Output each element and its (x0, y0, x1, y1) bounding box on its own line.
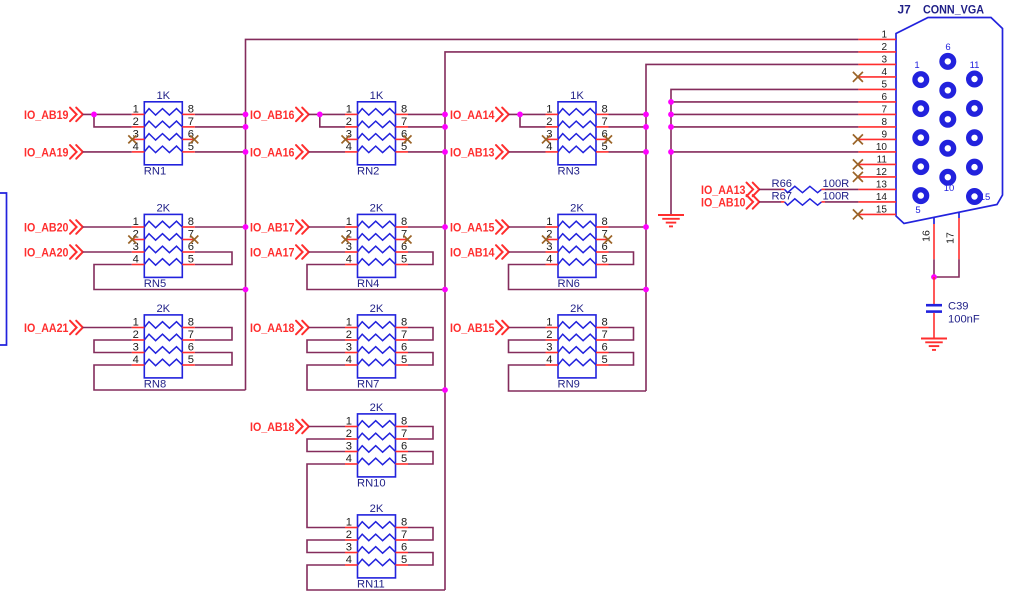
wire R67 to VGA pin 14 (825, 201, 858, 203)
svg-text:4: 4 (346, 453, 352, 465)
connector J7 pin 8 stub (858, 126, 896, 128)
no-connect X on RN6 pin 7 (604, 236, 612, 244)
svg-text:15: 15 (876, 204, 888, 215)
connector J7 pin 11 stub (858, 163, 896, 165)
port IO_AA15 (450, 220, 509, 234)
wire RN3 pin 8 to bus C (609, 113, 647, 115)
port IO_AA20 (24, 245, 83, 259)
connector J7 CONN_VGA body (896, 18, 1003, 224)
svg-text:8: 8 (188, 216, 194, 228)
svg-text:RN5: RN5 (144, 278, 166, 290)
port IO_AA21 (24, 321, 83, 335)
svg-text:IO_AB18: IO_AB18 (250, 420, 295, 434)
svg-text:10: 10 (876, 142, 888, 153)
svg-text:10: 10 (944, 183, 955, 194)
svg-text:13: 13 (876, 179, 888, 190)
wire IO_AA20 to RN pin 3 (83, 251, 132, 253)
svg-text:4: 4 (133, 354, 139, 366)
wire IO_AB13 to RN3 pin 4 (509, 151, 546, 153)
junction bus / RN.8 (group2 col2) (643, 224, 649, 230)
port IO_AA14 (450, 108, 509, 122)
svg-text:2: 2 (546, 329, 552, 341)
port IO_AB17 (250, 220, 309, 234)
no-connect X on J7 pin 9 (853, 134, 863, 144)
wire IO_AA14 to RN3 pin 1 (509, 113, 546, 115)
wire C39 bottom to ground (933, 313, 935, 339)
svg-text:6: 6 (881, 92, 887, 103)
svg-text:RN2: RN2 (357, 166, 379, 178)
svg-text:1: 1 (914, 60, 919, 71)
port IO_AB20 (24, 220, 83, 234)
svg-text:C39: C39 (948, 301, 969, 313)
svg-text:2K: 2K (570, 303, 584, 315)
wire J7 pin16 down to node (933, 259, 935, 277)
wire RN1 pin 5 to bus A (195, 151, 246, 153)
no-connect X on J7 pin 4 (853, 72, 863, 82)
wire RN1 pin 7 to bus A (195, 126, 246, 128)
wire RN pin 8 to bus (group2 col2) (609, 226, 647, 228)
svg-text:4: 4 (881, 67, 887, 78)
wire bottom loop RN pin4 to bus (group2 col1) (307, 265, 445, 290)
wire bottom loop RN pin4 to bus (group3 col1) (307, 365, 445, 390)
svg-text:IO_AA14: IO_AA14 (450, 108, 495, 122)
wire VGA pin 8 to ground bus (671, 126, 858, 128)
wire right loop RN pin8 to pin7 (group3 col0) (195, 328, 232, 341)
svg-text:3: 3 (346, 441, 352, 453)
wire left loop RN pin2 to pin3 (group3 col2) (509, 340, 546, 353)
wire IO_AB17 to RN pin 1 (309, 226, 346, 228)
pin numbers for RN5 (133, 216, 194, 266)
svg-text:4: 4 (346, 554, 352, 566)
svg-text:3: 3 (133, 342, 139, 354)
resistor network RN6 value 2K (546, 214, 609, 277)
junction bus / loop (group2 col1) (442, 287, 448, 293)
port IO_AA17 (250, 245, 309, 259)
connector J7 pin 15 stub (858, 213, 896, 215)
wire right loop RN pin6 to pin5 (group2 col0) (195, 252, 232, 265)
svg-text:RN7: RN7 (357, 379, 379, 391)
svg-text:12: 12 (876, 167, 888, 178)
resistor network RN2 value 1K (345, 102, 408, 165)
junction ground bus / VGA10 (668, 149, 674, 155)
svg-text:8: 8 (602, 216, 608, 228)
svg-text:1: 1 (346, 517, 352, 529)
junction IO_AA14 branch (517, 112, 523, 118)
svg-text:8: 8 (188, 317, 194, 329)
no-connect X on RN5 pin 2 (128, 236, 136, 244)
connector J7 socket pin 10 (942, 171, 954, 183)
connector J7 socket pin 11 (969, 73, 981, 85)
no-connect X on RN2 pin 6 (404, 135, 412, 143)
svg-text:2: 2 (346, 329, 352, 341)
wire right loop RN pin6 to pin5 (group3 col0) (195, 353, 232, 366)
svg-text:1: 1 (881, 29, 887, 40)
wire IO_AA17 to RN pin 3 (309, 251, 346, 253)
svg-text:5: 5 (401, 254, 407, 266)
connector J7 socket pin 7 (942, 84, 954, 96)
svg-text:5: 5 (188, 354, 194, 366)
wire right loop RN pin6 to pin5 (group3 col2) (609, 353, 634, 366)
ground symbol GND (below C39) (921, 339, 947, 350)
svg-text:5: 5 (401, 554, 407, 566)
svg-text:IO_AA17: IO_AA17 (250, 246, 295, 260)
svg-text:8: 8 (401, 317, 407, 329)
port IO_AB19 (24, 108, 83, 122)
svg-text:8: 8 (401, 216, 407, 228)
svg-text:6: 6 (188, 342, 194, 354)
svg-text:2K: 2K (156, 303, 170, 315)
svg-text:IO_AA21: IO_AA21 (24, 321, 69, 335)
port IO_AA16 (250, 145, 309, 159)
no-connect X on J7 pin 11 (853, 159, 863, 169)
svg-text:7: 7 (401, 329, 407, 341)
svg-text:IO_AB16: IO_AB16 (250, 108, 295, 122)
connector J7 socket pin 2 (915, 103, 927, 115)
svg-text:14: 14 (876, 192, 888, 203)
svg-text:R67: R67 (772, 190, 793, 202)
wire IO_AB14 to RN pin 3 (509, 251, 546, 253)
svg-text:RN3: RN3 (558, 166, 580, 178)
wire IO_AB15 to RN pin 1 (509, 327, 546, 329)
svg-text:1: 1 (346, 216, 352, 228)
svg-text:IO_AB19: IO_AB19 (24, 108, 69, 122)
svg-text:7: 7 (401, 529, 407, 541)
svg-text:1K: 1K (156, 90, 170, 102)
port IO_AB15 (450, 321, 509, 335)
wire right loop RN pin8 to pin7 (group3 col1) (408, 328, 433, 341)
port IO_AA18 (250, 321, 309, 335)
off-sheet symbol fragment (left edge) (0, 193, 7, 345)
no-connect X on RN4 pin 2 (342, 236, 350, 244)
pin numbers for RN11 (346, 517, 407, 567)
wire RN pin 8 to bus (group2 col0) (195, 226, 246, 228)
svg-text:7: 7 (401, 428, 407, 440)
junction bus C / RN3.8 (643, 112, 649, 118)
junction IO_AB16 branch (317, 112, 323, 118)
resistor network RN5 value 2K (132, 214, 195, 277)
junction bus B / RN2.5 (442, 149, 448, 155)
resistor network RN1 value 1K (132, 102, 195, 165)
wire IO_AA18 to RN pin 1 (309, 327, 346, 329)
no-connect X on RN6 pin 2 (542, 236, 550, 244)
no-connect X on RN1 pin 3 (128, 135, 136, 143)
port IO_AB18 (250, 420, 309, 434)
svg-text:1: 1 (346, 103, 352, 115)
svg-text:IO_AB10: IO_AB10 (701, 196, 746, 210)
wire ground bus vertical to VGA pin 5 (671, 89, 858, 215)
svg-text:IO_AB20: IO_AB20 (24, 221, 69, 235)
connector J7 pin 9 stub (858, 138, 896, 140)
svg-text:6: 6 (401, 441, 407, 453)
svg-text:100nF: 100nF (948, 314, 980, 326)
wire branch IO_AA14 to RN3 pin 2 (520, 114, 546, 127)
svg-text:RN6: RN6 (558, 278, 580, 290)
connector J7 socket pin 9 (942, 142, 954, 154)
connector J7 socket pin 12 (969, 103, 981, 115)
junction pin16/pin17 node (931, 274, 937, 280)
svg-text:7: 7 (188, 116, 194, 128)
wire branch IO_AB16 to RN2 pin 2 (320, 114, 345, 127)
wire right loop RN pin6 to pin5 (group2 col1) (408, 252, 433, 265)
wire right loop RN10 pin6 to pin5 (408, 452, 433, 465)
svg-text:IO_AB14: IO_AB14 (450, 246, 495, 260)
svg-text:1: 1 (133, 216, 139, 228)
connector J7 socket pin 15 (969, 191, 981, 203)
wire left loop RN11 pin2 to pin3 (307, 540, 345, 553)
junction bus A / RN1.5 (243, 149, 249, 155)
connector J7 socket pin 8 (942, 113, 954, 125)
junction ground bus / VGA7 (668, 112, 674, 118)
wire IO_AA21 to RN pin 1 (83, 327, 132, 329)
svg-text:5: 5 (401, 354, 407, 366)
svg-text:4: 4 (346, 254, 352, 266)
wire branch IO_AB19 to RN1 pin 2 (94, 114, 132, 127)
wire IO_AA13 to R66 (759, 188, 781, 190)
svg-text:7: 7 (188, 329, 194, 341)
svg-text:1: 1 (346, 416, 352, 428)
wire right loop RN11 pin8 to pin7 (408, 528, 433, 541)
svg-text:8: 8 (602, 317, 608, 329)
pin numbers for RN10 (346, 416, 407, 466)
svg-text:RN8: RN8 (144, 379, 166, 391)
svg-text:100R: 100R (823, 190, 850, 202)
junction bus / loop (group2 col2) (643, 287, 649, 293)
port IO_AB10 (701, 195, 759, 209)
svg-text:5: 5 (401, 453, 407, 465)
svg-text:RN10: RN10 (357, 478, 386, 490)
no-connect X on RN1 pin 6 (190, 135, 198, 143)
junction bus / loop (group2 col0) (243, 287, 249, 293)
pin numbers for RN7 (346, 317, 407, 367)
svg-text:3: 3 (346, 342, 352, 354)
svg-text:IO_AA16: IO_AA16 (250, 146, 295, 160)
resistor network RN10 value 2K (345, 414, 408, 477)
ground symbol GND (ground bus) (658, 215, 684, 226)
svg-text:2K: 2K (570, 203, 584, 215)
wire left loop RN pin2 to pin3 (group3 col0) (94, 340, 132, 353)
svg-text:IO_AA15: IO_AA15 (450, 221, 495, 235)
svg-text:6: 6 (401, 342, 407, 354)
wire left loop RN pin2 to pin3 (group3 col1) (307, 340, 345, 353)
wire node to C39 top (933, 277, 935, 304)
wire VGA pin 7 to ground bus (671, 113, 858, 115)
svg-text:1K: 1K (570, 90, 584, 102)
svg-text:2K: 2K (370, 503, 384, 515)
resistor network RN8 value 2K (132, 315, 195, 378)
wire bottom loop RN pin4 to bus (group3 col2) (509, 365, 647, 391)
junction bus / RN.8 (group2 col0) (243, 224, 249, 230)
connector J7 pin 2 stub (858, 51, 896, 53)
connector J7 pin 14 stub (858, 201, 896, 203)
junction ground bus / VGA6 (668, 99, 674, 105)
svg-text:R66: R66 (772, 178, 793, 190)
svg-text:2K: 2K (156, 203, 170, 215)
resistor network RN9 value 2K (546, 315, 609, 378)
svg-text:8: 8 (401, 416, 407, 428)
resistor network RN3 value 1K (546, 102, 609, 165)
no-connect X on J7 pin 15 (853, 209, 863, 219)
svg-text:RN4: RN4 (357, 278, 379, 290)
wire J7 pin17 down and left to node (934, 259, 959, 277)
svg-text:IO_AA19: IO_AA19 (24, 146, 69, 160)
junction bus B / RN7 loop (442, 387, 448, 393)
wire IO_AA16 to RN2 pin 4 (309, 151, 346, 153)
wire right loop RN pin6 to pin5 (group2 col2) (609, 252, 634, 265)
pin numbers for RN8 (133, 317, 194, 367)
wire IO_AB10 to R67 (759, 201, 781, 203)
svg-text:11: 11 (877, 154, 888, 165)
svg-text:5: 5 (188, 254, 194, 266)
port IO_AB16 (250, 108, 309, 122)
svg-text:4: 4 (133, 254, 139, 266)
resistor network RN7 value 2K (345, 315, 408, 378)
svg-text:5: 5 (602, 354, 608, 366)
port IO_AA13 (701, 183, 759, 197)
resistor R66 (781, 186, 825, 192)
connector J7 pin 5 stub (858, 88, 896, 90)
junction bus A / RN1.7 (243, 124, 249, 130)
wire bus net A vertical (RN1 column to VGA pin 1) (246, 39, 859, 390)
resistor network RN11 value 2K (345, 515, 408, 578)
resistor R67 (781, 199, 825, 205)
svg-text:6: 6 (602, 342, 608, 354)
wire IO_AB18 to RN10 pin 1 (309, 426, 346, 428)
svg-text:2: 2 (133, 329, 139, 341)
svg-text:1: 1 (346, 317, 352, 329)
svg-text:2K: 2K (370, 402, 384, 414)
junction bus B / RN2.8 (442, 112, 448, 118)
connector J7 pin 13 stub (858, 188, 896, 190)
svg-text:RN11: RN11 (357, 579, 385, 591)
svg-text:IO_AA18: IO_AA18 (250, 321, 295, 335)
svg-text:100R: 100R (823, 178, 850, 190)
svg-text:7: 7 (401, 116, 407, 128)
wire RN3 pin 7 to bus C (609, 126, 647, 128)
wire RN10 pin4 to RN11 pin1 (307, 464, 345, 528)
connector J7 pin 6 stub (858, 101, 896, 103)
svg-text:8: 8 (401, 103, 407, 115)
pin numbers for RN2 (346, 103, 407, 152)
wire VGA pin 6 to ground bus (671, 101, 858, 103)
wire RN2 pin 8 to bus B (408, 113, 445, 115)
svg-text:11: 11 (970, 60, 980, 71)
wire RN2 pin 7 to bus B (408, 126, 445, 128)
svg-text:1: 1 (133, 317, 139, 329)
junction bus C / RN3.5 (643, 149, 649, 155)
svg-text:16: 16 (921, 230, 933, 242)
svg-text:2: 2 (133, 116, 139, 128)
svg-text:4: 4 (546, 354, 552, 366)
svg-text:7: 7 (602, 329, 608, 341)
wire RN3 pin 5 to bus C (609, 151, 647, 153)
wire IO_AB19 to RN1 pin 1 (83, 113, 132, 115)
connector J7 pin 16 stub (933, 218, 935, 260)
wire bus net C vertical (RN3 column to VGA pin 3) (646, 64, 858, 391)
no-connect X on RN3 pin 3 (542, 135, 550, 143)
svg-text:2: 2 (881, 42, 887, 53)
wire IO_AA19 to RN1 pin 4 (83, 151, 132, 153)
junction bus B / RN2.7 (442, 124, 448, 130)
connector J7 pin 17 stub (958, 213, 960, 259)
pin numbers for RN4 (346, 216, 407, 266)
connector J7 pin 1 stub (858, 38, 896, 40)
svg-text:3: 3 (346, 542, 352, 554)
junction bus C / RN3.7 (643, 124, 649, 130)
pin numbers for RN9 (546, 317, 607, 367)
connector J7 socket pin 14 (969, 161, 981, 173)
svg-text:6: 6 (401, 542, 407, 554)
svg-text:CONN_VGA: CONN_VGA (923, 3, 984, 17)
svg-text:2: 2 (346, 428, 352, 440)
wire bottom loop RN pin4 to bus (group3 col0) (94, 365, 246, 390)
connector J7 socket pin 3 (915, 132, 927, 144)
svg-text:8: 8 (401, 517, 407, 529)
wire VGA pin 10 to ground bus (671, 151, 858, 153)
connector J7 pin 4 stub (858, 76, 896, 78)
junction bus / RN.8 (group2 col1) (442, 224, 448, 230)
connector J7 pin 10 stub (858, 151, 896, 153)
wire RN pin 8 to bus (group2 col1) (408, 226, 445, 228)
svg-text:7: 7 (881, 104, 887, 115)
no-connect X on RN3 pin 6 (604, 135, 612, 143)
svg-text:8: 8 (188, 103, 194, 115)
port IO_AB13 (450, 145, 509, 159)
svg-text:5: 5 (602, 254, 608, 266)
svg-text:8: 8 (602, 103, 608, 115)
svg-text:2: 2 (346, 116, 352, 128)
connector J7 pin 12 stub (858, 176, 896, 178)
svg-text:1: 1 (546, 216, 552, 228)
connector J7 pin 7 stub (858, 113, 896, 115)
no-connect X on RN5 pin 7 (190, 236, 198, 244)
svg-text:15: 15 (980, 192, 991, 203)
resistor network RN4 value 2K (345, 214, 408, 277)
svg-text:8: 8 (881, 117, 887, 128)
connector J7 socket pin 5 (915, 190, 927, 202)
svg-text:3: 3 (881, 54, 887, 65)
no-connect X on J7 pin 12 (853, 172, 863, 182)
junction IO_AB19 branch (91, 112, 97, 118)
wire right loop RN pin8 to pin7 (group3 col2) (609, 328, 634, 341)
wire bottom loop RN pin4 to bus (group2 col2) (509, 265, 647, 290)
svg-text:1: 1 (546, 317, 552, 329)
svg-text:1: 1 (133, 103, 139, 115)
svg-text:RN9: RN9 (558, 379, 580, 391)
connector J7 socket pin 4 (915, 161, 927, 173)
wire IO_AA15 to RN pin 1 (509, 226, 546, 228)
svg-text:2: 2 (546, 116, 552, 128)
svg-text:J7: J7 (898, 3, 912, 17)
svg-text:7: 7 (602, 116, 608, 128)
svg-text:5: 5 (915, 205, 920, 216)
svg-text:2K: 2K (370, 203, 384, 215)
connector J7 pin 3 stub (858, 63, 896, 65)
svg-text:IO_AB13: IO_AB13 (450, 146, 495, 160)
connector J7 socket pin 13 (969, 132, 981, 144)
connector J7 socket pin 1 (915, 74, 927, 86)
wire R66 to VGA pin 13 (825, 188, 858, 190)
svg-text:1: 1 (546, 103, 552, 115)
no-connect X on RN4 pin 7 (404, 236, 412, 244)
svg-text:17: 17 (945, 232, 957, 244)
pin numbers for RN1 (133, 103, 194, 152)
port IO_AA19 (24, 145, 83, 159)
wire RN2 pin 5 to bus B (408, 151, 445, 153)
wire right loop RN pin6 to pin5 (group3 col1) (408, 353, 433, 366)
wire bottom loop RN11 pin4 to bus B (307, 565, 445, 590)
svg-text:4: 4 (346, 354, 352, 366)
capacitor C39 (926, 305, 942, 311)
